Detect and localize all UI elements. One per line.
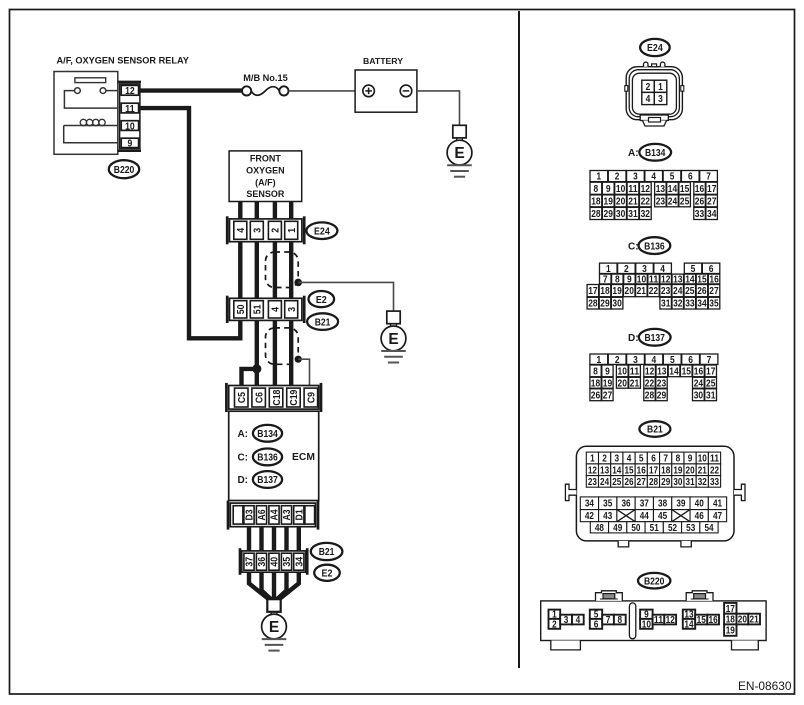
svg-text:25: 25 xyxy=(680,196,690,207)
connector D:B137 pin grid xyxy=(590,354,718,401)
svg-text:A6: A6 xyxy=(257,509,268,520)
ECM pin C5 xyxy=(235,388,249,407)
svg-text:16: 16 xyxy=(694,367,704,378)
svg-text:3: 3 xyxy=(615,454,620,465)
relay coil return wiring xyxy=(64,126,118,143)
battery xyxy=(355,70,417,112)
svg-text:A/F, OXYGEN SENSOR RELAY: A/F, OXYGEN SENSOR RELAY xyxy=(57,56,189,66)
ECM pin D3 xyxy=(244,506,256,524)
svg-text:4: 4 xyxy=(651,172,656,183)
svg-text:18: 18 xyxy=(591,378,601,389)
ECM pin A3 xyxy=(281,506,293,524)
svg-text:40: 40 xyxy=(270,557,281,567)
wire battery negative to ground xyxy=(417,91,460,125)
ECM pin C9 xyxy=(304,388,318,407)
svg-text:C18: C18 xyxy=(272,389,283,405)
svg-text:18: 18 xyxy=(591,196,601,207)
relay contact wiring xyxy=(64,91,117,109)
svg-text:9: 9 xyxy=(688,454,693,465)
svg-text:22: 22 xyxy=(645,378,655,389)
svg-text:4: 4 xyxy=(646,94,651,105)
svg-text:E: E xyxy=(269,619,279,636)
svg-text:B134: B134 xyxy=(257,429,278,440)
svg-text:37: 37 xyxy=(640,499,649,510)
svg-text:D:: D: xyxy=(628,333,639,344)
svg-text:52: 52 xyxy=(668,523,677,534)
ECM connector ref B134 xyxy=(253,425,282,442)
svg-text:27: 27 xyxy=(709,286,719,297)
pin 34 xyxy=(294,553,306,570)
ECM pin xyxy=(233,506,243,524)
svg-text:2: 2 xyxy=(624,264,629,275)
relay contact terminals xyxy=(75,88,81,94)
svg-text:16: 16 xyxy=(695,184,705,195)
svg-text:6: 6 xyxy=(688,355,693,366)
svg-text:19: 19 xyxy=(726,626,736,637)
connector C:B136 pin grid xyxy=(587,263,720,310)
svg-text:2: 2 xyxy=(615,172,620,183)
svg-text:35: 35 xyxy=(282,557,293,567)
svg-text:EN-08630: EN-08630 xyxy=(738,679,792,693)
svg-text:9: 9 xyxy=(606,184,611,195)
svg-text:B136: B136 xyxy=(257,453,278,464)
ECM pin C18 xyxy=(269,388,283,407)
svg-text:27: 27 xyxy=(707,196,717,207)
svg-text:43: 43 xyxy=(603,511,613,522)
svg-text:4: 4 xyxy=(236,228,247,233)
svg-text:2: 2 xyxy=(271,228,282,233)
connector B220 pin block (pins 12,11,10,9) xyxy=(118,82,141,151)
svg-text:10: 10 xyxy=(125,121,135,132)
svg-text:2: 2 xyxy=(602,454,607,465)
svg-text:13: 13 xyxy=(657,367,667,378)
svg-text:3: 3 xyxy=(564,615,569,626)
svg-text:1: 1 xyxy=(606,264,611,275)
svg-text:27: 27 xyxy=(603,390,613,401)
svg-text:8: 8 xyxy=(593,367,598,378)
svg-text:21: 21 xyxy=(750,615,760,626)
svg-text:32: 32 xyxy=(673,299,683,310)
svg-text:12: 12 xyxy=(588,465,597,476)
branch wire to C5 (thick) xyxy=(242,369,257,388)
svg-text:9: 9 xyxy=(605,367,610,378)
svg-text:B220: B220 xyxy=(114,165,135,176)
wire fuse to battery xyxy=(289,90,356,92)
connector label E2 (lower) xyxy=(314,565,340,581)
svg-text:34: 34 xyxy=(585,499,595,510)
svg-text:15: 15 xyxy=(624,465,634,476)
svg-text:31: 31 xyxy=(628,209,638,220)
svg-text:19: 19 xyxy=(604,196,614,207)
svg-text:E2: E2 xyxy=(316,295,327,306)
svg-text:49: 49 xyxy=(613,523,623,534)
svg-text:26: 26 xyxy=(624,477,634,488)
svg-text:B220: B220 xyxy=(644,576,665,587)
connector E2/B21 pin block (pins 50,51,4,3) xyxy=(227,296,304,323)
svg-text:C:: C: xyxy=(628,241,639,252)
svg-text:20: 20 xyxy=(738,615,748,626)
svg-text:40: 40 xyxy=(695,499,704,510)
svg-text:C5: C5 xyxy=(237,392,248,403)
svg-text:E: E xyxy=(388,331,398,348)
svg-text:14: 14 xyxy=(684,619,694,630)
svg-text:3: 3 xyxy=(658,94,663,105)
svg-text:12: 12 xyxy=(125,86,135,97)
wire shield2 to C9 xyxy=(298,359,309,389)
svg-text:48: 48 xyxy=(595,523,605,534)
svg-text:26: 26 xyxy=(591,390,601,401)
svg-text:11: 11 xyxy=(125,104,135,115)
svg-text:M/B No.15: M/B No.15 xyxy=(243,73,287,83)
svg-text:23: 23 xyxy=(657,378,667,389)
svg-text:23: 23 xyxy=(588,477,598,488)
svg-text:19: 19 xyxy=(673,465,683,476)
svg-text:28: 28 xyxy=(591,209,601,220)
svg-text:14: 14 xyxy=(612,465,622,476)
svg-text:3: 3 xyxy=(633,172,638,183)
pin 36 xyxy=(256,553,268,570)
svg-text:12: 12 xyxy=(641,184,651,195)
svg-text:E24: E24 xyxy=(647,43,663,54)
svg-text:11: 11 xyxy=(710,454,720,465)
svg-text:37: 37 xyxy=(245,557,256,567)
svg-text:45: 45 xyxy=(658,511,668,522)
shield 1 (shielded cable) xyxy=(266,252,299,288)
pin 35 xyxy=(281,553,293,570)
svg-text:29: 29 xyxy=(600,299,610,310)
svg-text:D1: D1 xyxy=(295,509,306,520)
svg-text:30: 30 xyxy=(616,209,626,220)
pin 9 xyxy=(121,138,138,149)
connector E24 face view xyxy=(625,62,684,126)
svg-text:22: 22 xyxy=(641,196,651,207)
svg-text:8: 8 xyxy=(594,184,599,195)
wires ECM to B21/E2 (thick) xyxy=(249,527,299,551)
svg-text:20: 20 xyxy=(618,378,628,389)
svg-text:A:: A: xyxy=(628,148,639,159)
connector B21 pin grid bottom xyxy=(590,522,718,534)
svg-text:8: 8 xyxy=(676,454,681,465)
svg-text:B21: B21 xyxy=(315,317,331,328)
connector B220 pin boxes xyxy=(549,603,761,637)
svg-text:B137: B137 xyxy=(257,475,278,486)
svg-text:5: 5 xyxy=(639,454,644,465)
svg-text:33: 33 xyxy=(685,299,695,310)
svg-text:E: E xyxy=(454,145,464,162)
svg-text:A:: A: xyxy=(237,429,248,440)
svg-text:39: 39 xyxy=(676,499,686,510)
svg-text:D3: D3 xyxy=(245,509,256,520)
svg-text:31: 31 xyxy=(686,477,696,488)
connector label E2 xyxy=(309,291,335,307)
svg-text:33: 33 xyxy=(695,209,705,220)
svg-text:24: 24 xyxy=(600,477,610,488)
pin 10 xyxy=(121,121,138,133)
svg-text:6: 6 xyxy=(709,264,714,275)
ECM connector ref B136 xyxy=(253,449,282,466)
svg-text:6: 6 xyxy=(651,454,656,465)
svg-text:B134: B134 xyxy=(645,148,666,159)
svg-text:7: 7 xyxy=(663,454,668,465)
svg-text:15: 15 xyxy=(680,184,690,195)
svg-text:35: 35 xyxy=(709,299,719,310)
svg-text:6: 6 xyxy=(688,172,693,183)
connector view label B136 xyxy=(639,237,671,254)
svg-text:11: 11 xyxy=(654,615,664,626)
svg-text:12: 12 xyxy=(645,367,655,378)
svg-text:23: 23 xyxy=(656,196,666,207)
junction node on wire 51 xyxy=(252,364,261,373)
connector E24 pin block (pins 4,3,2,1) xyxy=(227,216,304,244)
svg-text:3: 3 xyxy=(642,264,647,275)
svg-text:28: 28 xyxy=(645,390,655,401)
ECM connector row D3,A6,A4,A3,D1 xyxy=(228,501,318,530)
svg-text:21: 21 xyxy=(630,378,640,389)
svg-text:2: 2 xyxy=(646,82,651,93)
svg-text:38: 38 xyxy=(658,499,668,510)
svg-text:B21: B21 xyxy=(319,547,335,558)
ECM pin C6 xyxy=(252,388,266,407)
svg-text:47: 47 xyxy=(713,511,722,522)
svg-text:4: 4 xyxy=(627,454,632,465)
svg-text:17: 17 xyxy=(707,184,717,195)
wire pin11 to connector pin 50 (thick) xyxy=(140,108,241,338)
svg-text:30: 30 xyxy=(673,477,682,488)
svg-text:20: 20 xyxy=(616,196,626,207)
svg-text:18: 18 xyxy=(661,465,671,476)
svg-text:8: 8 xyxy=(618,615,623,626)
connector B21 pin grid middle xyxy=(580,497,726,522)
connector label B21 (lower) xyxy=(311,543,343,560)
connector B21/E2 pin block (pins 37,36,40,35,34) xyxy=(240,548,307,575)
ECM pin xyxy=(305,506,315,524)
svg-text:22: 22 xyxy=(649,286,659,297)
pin 12 xyxy=(121,85,138,97)
svg-text:29: 29 xyxy=(661,477,671,488)
wire pin12 to fuse (thick) xyxy=(140,88,243,92)
svg-text:13: 13 xyxy=(656,184,666,195)
svg-text:7: 7 xyxy=(706,172,711,183)
svg-text:17: 17 xyxy=(649,465,658,476)
connector view E24 label xyxy=(640,39,670,56)
svg-text:27: 27 xyxy=(637,477,646,488)
ground E (shield) xyxy=(381,311,406,362)
svg-text:26: 26 xyxy=(695,196,705,207)
svg-text:4: 4 xyxy=(652,355,657,366)
svg-text:51: 51 xyxy=(253,304,264,314)
front oxygen sensor xyxy=(229,151,302,202)
svg-text:11: 11 xyxy=(630,367,640,378)
ground bus wires (thick) xyxy=(249,572,299,599)
svg-text:5: 5 xyxy=(691,264,696,275)
svg-text:D:: D: xyxy=(237,475,248,486)
svg-text:51: 51 xyxy=(650,523,660,534)
svg-text:32: 32 xyxy=(641,209,651,220)
svg-text:29: 29 xyxy=(657,390,667,401)
svg-text:A4: A4 xyxy=(270,509,281,520)
svg-text:20: 20 xyxy=(625,286,635,297)
svg-text:16: 16 xyxy=(637,465,647,476)
svg-text:10: 10 xyxy=(698,454,707,465)
connector view label B137 xyxy=(639,329,671,346)
svg-text:B137: B137 xyxy=(644,333,665,344)
svg-text:44: 44 xyxy=(640,511,650,522)
svg-text:C:: C: xyxy=(237,452,248,463)
svg-text:31: 31 xyxy=(661,299,671,310)
svg-text:BATTERY: BATTERY xyxy=(363,56,403,66)
svg-text:30: 30 xyxy=(694,390,704,401)
svg-text:24: 24 xyxy=(694,378,704,389)
wires E24 to E2/B21 (thick) xyxy=(240,242,291,299)
connector label B220 (relay) xyxy=(109,160,139,178)
svg-text:34: 34 xyxy=(295,557,306,567)
fuse M/B No.15 xyxy=(242,86,289,95)
connector label B21 xyxy=(307,313,338,330)
connector view label B134 xyxy=(639,144,671,161)
wire shield1 to ground xyxy=(298,282,393,311)
ECM connector ref B137 xyxy=(253,471,282,488)
svg-text:30: 30 xyxy=(612,299,622,310)
svg-text:C19: C19 xyxy=(289,389,300,405)
svg-text:53: 53 xyxy=(686,523,696,534)
ground E (ECM) xyxy=(262,599,287,650)
relay B220 body xyxy=(54,72,118,155)
svg-text:32: 32 xyxy=(698,477,707,488)
svg-text:4: 4 xyxy=(576,615,581,626)
svg-text:15: 15 xyxy=(697,615,707,626)
svg-text:SENSOR: SENSOR xyxy=(246,189,285,199)
ECM pin A4 xyxy=(269,506,281,524)
svg-text:2: 2 xyxy=(552,619,557,630)
ECM connector row C5,C6,C18,C19,C9 xyxy=(226,383,321,412)
svg-text:54: 54 xyxy=(704,523,714,534)
svg-text:C9: C9 xyxy=(307,392,318,403)
svg-text:1: 1 xyxy=(597,172,602,183)
svg-text:13: 13 xyxy=(600,465,610,476)
svg-text:OXYGEN: OXYGEN xyxy=(246,166,285,176)
pin 11 xyxy=(121,103,138,115)
pin 40 xyxy=(269,553,281,570)
connector B21 housing xyxy=(565,446,745,547)
wires E2/B21 to ECM (thick) xyxy=(257,320,291,388)
svg-text:23: 23 xyxy=(661,286,671,297)
svg-text:21: 21 xyxy=(637,286,647,297)
svg-text:14: 14 xyxy=(668,184,678,195)
svg-text:41: 41 xyxy=(713,499,723,510)
svg-text:B136: B136 xyxy=(644,241,665,252)
svg-text:5: 5 xyxy=(670,172,675,183)
connector view label B21 xyxy=(639,421,670,437)
svg-text:10: 10 xyxy=(642,619,652,630)
svg-text:17: 17 xyxy=(706,367,716,378)
svg-text:25: 25 xyxy=(706,378,716,389)
svg-text:24: 24 xyxy=(673,286,683,297)
relay coil L1 xyxy=(64,125,118,127)
svg-text:1: 1 xyxy=(596,355,601,366)
svg-text:1: 1 xyxy=(658,82,663,93)
svg-text:21: 21 xyxy=(628,196,638,207)
svg-text:E2: E2 xyxy=(322,569,333,580)
svg-text:6: 6 xyxy=(594,619,599,630)
relay armature bar xyxy=(75,78,106,83)
connector view label B220 xyxy=(638,573,670,589)
svg-text:19: 19 xyxy=(603,378,613,389)
svg-text:24: 24 xyxy=(668,196,678,207)
svg-text:50: 50 xyxy=(236,304,247,314)
svg-text:ECM: ECM xyxy=(292,452,315,463)
svg-text:46: 46 xyxy=(695,511,705,522)
svg-text:14: 14 xyxy=(669,367,679,378)
svg-text:(A/F): (A/F) xyxy=(255,177,276,187)
svg-text:26: 26 xyxy=(697,286,707,297)
svg-text:33: 33 xyxy=(710,477,720,488)
svg-text:C6: C6 xyxy=(254,392,265,403)
svg-text:18: 18 xyxy=(600,286,610,297)
svg-text:25: 25 xyxy=(685,286,695,297)
ECM pin D1 xyxy=(294,506,306,524)
svg-text:3: 3 xyxy=(252,228,263,233)
svg-text:15: 15 xyxy=(682,367,692,378)
svg-text:50: 50 xyxy=(631,523,640,534)
svg-text:28: 28 xyxy=(588,299,598,310)
svg-text:E24: E24 xyxy=(314,226,330,237)
connector label E24 xyxy=(306,222,337,239)
pin 37 xyxy=(244,553,256,570)
ECM box xyxy=(229,411,319,500)
svg-text:36: 36 xyxy=(621,499,631,510)
svg-text:34: 34 xyxy=(697,299,707,310)
svg-text:17: 17 xyxy=(588,286,598,297)
svg-text:A3: A3 xyxy=(282,509,293,520)
svg-text:4: 4 xyxy=(660,264,665,275)
svg-text:5: 5 xyxy=(670,355,675,366)
svg-text:B21: B21 xyxy=(647,425,663,436)
svg-text:3: 3 xyxy=(633,355,638,366)
connector A:B134 pin grid xyxy=(590,171,717,221)
svg-text:1: 1 xyxy=(590,454,595,465)
svg-text:11: 11 xyxy=(628,184,638,195)
svg-text:22: 22 xyxy=(710,465,719,476)
svg-text:21: 21 xyxy=(698,465,708,476)
ECM pin C19 xyxy=(287,388,301,407)
svg-text:10: 10 xyxy=(618,367,628,378)
svg-text:9: 9 xyxy=(128,139,133,150)
svg-text:4: 4 xyxy=(271,307,282,312)
svg-text:20: 20 xyxy=(686,465,695,476)
svg-text:35: 35 xyxy=(603,499,613,510)
svg-text:36: 36 xyxy=(257,557,268,567)
shield 2 ground node xyxy=(295,356,302,363)
sensor lead wires xyxy=(240,202,291,220)
svg-text:10: 10 xyxy=(616,184,626,195)
svg-text:3: 3 xyxy=(287,307,298,312)
shield 2 (shielded cable) xyxy=(266,328,299,364)
svg-text:16: 16 xyxy=(709,615,719,626)
E24 pin grid 2x2 xyxy=(642,80,655,93)
ECM pin A6 xyxy=(256,506,268,524)
svg-text:31: 31 xyxy=(706,390,716,401)
svg-text:FRONT: FRONT xyxy=(250,154,281,164)
connector B21 pin grid top xyxy=(586,452,720,488)
shield 1 ground node xyxy=(294,279,302,287)
svg-text:42: 42 xyxy=(585,511,594,522)
svg-text:2: 2 xyxy=(615,355,620,366)
svg-text:25: 25 xyxy=(612,477,622,488)
svg-text:12: 12 xyxy=(666,615,676,626)
svg-text:28: 28 xyxy=(649,477,659,488)
ground E (battery) xyxy=(447,125,472,176)
connector B220 housing xyxy=(541,591,766,650)
